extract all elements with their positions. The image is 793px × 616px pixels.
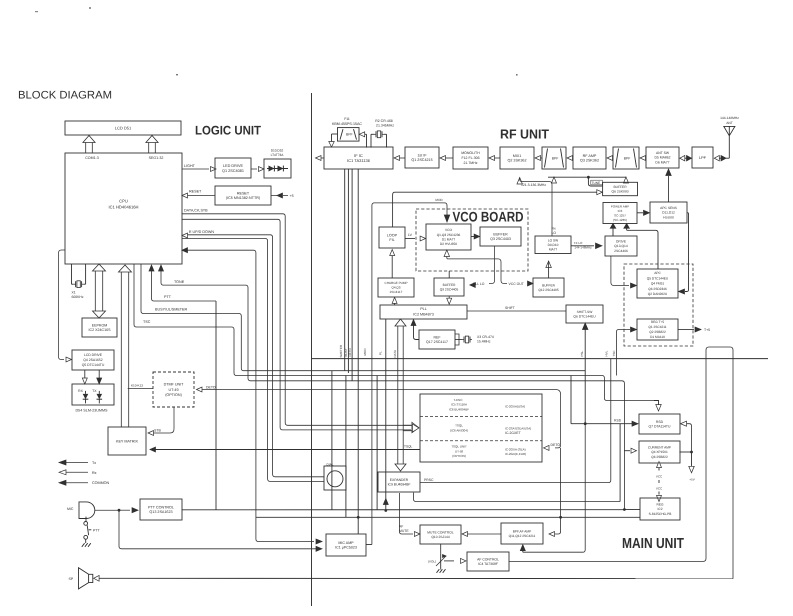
svg-text:PTT CONTROL: PTT CONTROL bbox=[148, 505, 174, 509]
svg-text:LPF: LPF bbox=[699, 156, 707, 160]
svg-text:X1: X1 bbox=[72, 290, 76, 294]
svg-text:MIC AMP: MIC AMP bbox=[338, 541, 354, 545]
svg-text:Q6 2SD2346: Q6 2SD2346 bbox=[648, 287, 667, 291]
svg-text:MUTE CONTROL: MUTE CONTROL bbox=[427, 530, 454, 534]
svg-text:TX LO: TX LO bbox=[574, 241, 583, 245]
svg-text:SP: SP bbox=[69, 577, 74, 581]
svg-text:MAIN UNIT: MAIN UNIT bbox=[622, 536, 684, 552]
svg-text:REG T+5: REG T+5 bbox=[651, 320, 665, 324]
svg-text:R2 CR-468: R2 CR-468 bbox=[375, 119, 393, 123]
svg-text:CURRENT AMP: CURRENT AMP bbox=[648, 445, 671, 449]
svg-text:IC2 X24C16S: IC2 X24C16S bbox=[89, 328, 112, 332]
svg-text:IC-2GXA (SEA): IC-2GXA (SEA) bbox=[505, 447, 526, 451]
svg-text:T-ENC: T-ENC bbox=[454, 398, 464, 402]
svg-text:Q1 2SC4081: Q1 2SC4081 bbox=[222, 169, 244, 173]
svg-text:D6 MA77: D6 MA77 bbox=[655, 160, 669, 164]
svg-text:IC-2SAT(SEA/USA): IC-2SAT(SEA/USA) bbox=[505, 426, 531, 430]
svg-text:VCC OUT: VCC OUT bbox=[509, 282, 524, 286]
svg-text:KEY MATRIX: KEY MATRIX bbox=[116, 439, 139, 443]
svg-text:Q6 2SK880: Q6 2SK880 bbox=[612, 189, 629, 193]
svg-text:MONOLITH: MONOLITH bbox=[461, 151, 480, 155]
svg-text:D2 HVU350: D2 HVU350 bbox=[440, 242, 457, 246]
svg-text:IC1 μPC5023: IC1 μPC5023 bbox=[335, 546, 357, 550]
svg-text:21.7MHz: 21.7MHz bbox=[463, 161, 477, 165]
svg-text:UT-49: UT-49 bbox=[168, 388, 178, 392]
svg-text:RESET: RESET bbox=[189, 190, 202, 194]
svg-text:S-8125CHG-PB: S-8125CHG-PB bbox=[649, 512, 672, 516]
svg-text:RESET: RESET bbox=[237, 191, 250, 195]
svg-text:(OPTION): (OPTION) bbox=[452, 454, 466, 458]
svg-text:CPU: CPU bbox=[119, 198, 128, 203]
svg-text:LCD DRIVE: LCD DRIVE bbox=[84, 353, 103, 357]
svg-text:SC-1257: SC-1257 bbox=[614, 213, 626, 217]
svg-text:+5: +5 bbox=[290, 194, 294, 198]
svg-text:CHARGE PUMP: CHARGE PUMP bbox=[384, 281, 407, 285]
svg-text:TONE: TONE bbox=[174, 280, 185, 284]
svg-text:Q5 DTC144EU: Q5 DTC144EU bbox=[647, 276, 669, 280]
svg-text:MOD: MOD bbox=[435, 198, 443, 202]
svg-text:Q9 2SC4405: Q9 2SC4405 bbox=[440, 287, 459, 291]
svg-text:21.345MHz: 21.345MHz bbox=[376, 124, 394, 128]
svg-text:Rx: Rx bbox=[552, 226, 556, 230]
svg-text:TUNE: TUNE bbox=[592, 181, 601, 185]
svg-text:LO: LO bbox=[552, 231, 557, 235]
svg-text:LV: LV bbox=[408, 233, 413, 237]
svg-text:LIGHT: LIGHT bbox=[184, 164, 196, 168]
svg-text:PLL: PLL bbox=[420, 307, 427, 311]
svg-text:APC: APC bbox=[654, 271, 661, 275]
svg-text:TSQL: TSQL bbox=[404, 445, 413, 449]
svg-text:MUTE: MUTE bbox=[399, 529, 409, 533]
svg-text:1st IF: 1st IF bbox=[417, 153, 427, 157]
svg-text:Q6 2SB822: Q6 2SB822 bbox=[651, 455, 668, 459]
svg-text:LOOP: LOOP bbox=[387, 233, 398, 237]
svg-text:D11,D12: D11,D12 bbox=[662, 211, 675, 215]
svg-text:(OPTION): (OPTION) bbox=[165, 393, 182, 397]
svg-text:D5 MA862: D5 MA862 bbox=[654, 156, 670, 160]
svg-text:Tx: Tx bbox=[92, 461, 96, 465]
svg-text:TSC: TSC bbox=[143, 320, 151, 324]
svg-text:RF AMP: RF AMP bbox=[583, 154, 597, 158]
svg-text:MOD: MOD bbox=[363, 348, 367, 356]
svg-text:T+5: T+5 bbox=[704, 328, 710, 332]
svg-text:X3 CR-474: X3 CR-474 bbox=[477, 335, 494, 339]
svg-text:SHIFT-SW: SHIFT-SW bbox=[577, 310, 594, 314]
svg-text:BLOCK DIAGRAM: BLOCK DIAGRAM bbox=[18, 90, 112, 102]
svg-text:IC2: IC2 bbox=[658, 507, 663, 511]
svg-text:Q11,Q12 2SC4211: Q11,Q12 2SC4211 bbox=[509, 534, 536, 538]
svg-text:Q13 2SA1623: Q13 2SA1623 bbox=[149, 510, 172, 514]
svg-text:Q13,Q14: Q13,Q14 bbox=[614, 244, 628, 248]
svg-text:LT4T73A: LT4T73A bbox=[271, 153, 285, 157]
svg-text:Q2 2SB822: Q2 2SB822 bbox=[649, 330, 666, 334]
svg-text:F11: F11 bbox=[344, 117, 350, 121]
svg-text:REF: REF bbox=[434, 335, 441, 339]
svg-text:144-148MHz: 144-148MHz bbox=[720, 116, 739, 120]
svg-text:DETO: DETO bbox=[551, 443, 561, 447]
svg-text:Q10 2SJ144: Q10 2SJ144 bbox=[431, 535, 449, 539]
svg-text:Q1 2SC4215: Q1 2SC4215 bbox=[411, 158, 432, 162]
svg-text:LCD D51: LCD D51 bbox=[115, 125, 132, 130]
svg-text:Q1 2SC4211: Q1 2SC4211 bbox=[648, 325, 666, 329]
svg-text:VCO: VCO bbox=[445, 228, 452, 232]
svg-text:D1 MA77: D1 MA77 bbox=[442, 237, 456, 241]
svg-text:Q2 3SK362: Q2 3SK362 bbox=[507, 159, 526, 163]
svg-text:STB: STB bbox=[154, 428, 161, 432]
svg-text:TSQL: TSQL bbox=[455, 424, 463, 428]
svg-text:PRSC: PRSC bbox=[424, 478, 434, 482]
svg-text:KBM-455PS-15AC: KBM-455PS-15AC bbox=[332, 122, 362, 126]
svg-text:Q4 XP1501: Q4 XP1501 bbox=[651, 450, 668, 454]
svg-text:RSD: RSD bbox=[614, 419, 622, 423]
svg-text:K10-K13: K10-K13 bbox=[131, 383, 143, 387]
svg-text:Q4,Q5: Q4,Q5 bbox=[391, 286, 400, 290]
svg-text:DETO: DETO bbox=[206, 385, 216, 389]
svg-text:BPF: BPF bbox=[624, 156, 631, 160]
svg-text:(IC5 MN1382-NTTR): (IC5 MN1382-NTTR) bbox=[226, 196, 260, 200]
svg-text:SMETER: SMETER bbox=[339, 344, 343, 357]
svg-text:IC-2GXET: IC-2GXET bbox=[505, 431, 521, 435]
svg-text:IC4 TA7368F: IC4 TA7368F bbox=[478, 562, 498, 566]
svg-text:HVL: HVL bbox=[604, 350, 608, 356]
svg-text:FIL: FIL bbox=[389, 238, 394, 242]
svg-text:IC3: IC3 bbox=[618, 209, 623, 213]
svg-text:Q5 DTC144TU: Q5 DTC144TU bbox=[82, 363, 105, 367]
svg-text:2SC4406: 2SC4406 bbox=[614, 249, 628, 253]
svg-text:Q1,Q3 2SC4236: Q1,Q3 2SC4236 bbox=[437, 233, 461, 237]
svg-text:Q12 2SC4405: Q12 2SC4405 bbox=[538, 288, 558, 292]
svg-text:D54 SLM-23UMMS: D54 SLM-23UMMS bbox=[76, 408, 109, 412]
svg-text:COMMON: COMMON bbox=[92, 481, 110, 485]
svg-text:DTMF UNIT: DTMF UNIT bbox=[164, 382, 185, 386]
svg-text:IC-2GX(E,EUR): IC-2GX(E,EUR) bbox=[505, 452, 526, 456]
svg-text:IC1 HD404616H: IC1 HD404616H bbox=[108, 205, 138, 210]
svg-text:HSU88: HSU88 bbox=[663, 215, 674, 219]
svg-text:RF UNIT: RF UNIT bbox=[500, 127, 549, 142]
svg-text:Q3 2SK362: Q3 2SK362 bbox=[580, 159, 599, 163]
svg-text:BUSY/UL/SMETER: BUSY/UL/SMETER bbox=[155, 308, 188, 312]
svg-text:(IC6 AK9304): (IC6 AK9304) bbox=[450, 428, 468, 432]
svg-text:IC-2GXA(USA): IC-2GXA(USA) bbox=[505, 404, 525, 408]
svg-text:ANT: ANT bbox=[726, 121, 733, 125]
svg-text:+5V: +5V bbox=[689, 478, 694, 482]
svg-text:15.4MHz: 15.4MHz bbox=[477, 340, 491, 344]
svg-text:EEPROM: EEPROM bbox=[92, 323, 108, 327]
svg-text:Rx: Rx bbox=[92, 471, 97, 475]
svg-text:RSD: RSD bbox=[656, 420, 664, 424]
svg-text:VCC: VCC bbox=[656, 475, 663, 479]
svg-text:LED DRIVE: LED DRIVE bbox=[223, 164, 244, 168]
svg-text:BPF: BPF bbox=[552, 156, 559, 160]
svg-text:LOGIC UNIT: LOGIC UNIT bbox=[195, 124, 261, 138]
svg-text:BUFFER: BUFFER bbox=[493, 232, 508, 236]
svg-text:PTT: PTT bbox=[164, 295, 172, 299]
svg-text:IC9 BU4094BF: IC9 BU4094BF bbox=[388, 482, 411, 486]
svg-text:ANT SW: ANT SW bbox=[656, 151, 670, 155]
svg-text:TSQL UNIT: TSQL UNIT bbox=[451, 445, 467, 449]
svg-text:PSL: PSL bbox=[580, 350, 584, 356]
svg-text:121.3-136.3MHz: 121.3-136.3MHz bbox=[521, 183, 546, 187]
svg-text:VCC: VCC bbox=[656, 487, 663, 491]
svg-text:DATA,CK,STB: DATA,CK,STB bbox=[184, 209, 208, 213]
svg-text:Q17 2SC4117: Q17 2SC4117 bbox=[426, 340, 448, 344]
svg-text:SHIFT: SHIFT bbox=[505, 306, 515, 310]
svg-text:IC5 S7116A: IC5 S7116A bbox=[451, 403, 467, 407]
svg-text:D10,D52: D10,D52 bbox=[271, 149, 284, 153]
svg-text:RX: RX bbox=[78, 389, 83, 393]
svg-text:PL: PL bbox=[379, 351, 383, 355]
svg-text:TSC: TSC bbox=[612, 350, 616, 357]
svg-text:Q7 DTA114TU: Q7 DTA114TU bbox=[649, 424, 671, 428]
svg-text:IC2 MB4873: IC2 MB4873 bbox=[413, 313, 434, 317]
svg-text:REG: REG bbox=[657, 502, 664, 506]
svg-text:BUFFER: BUFFER bbox=[613, 185, 627, 189]
svg-text:(VOL): (VOL) bbox=[428, 559, 436, 563]
svg-text:E UP/D DOWN: E UP/D DOWN bbox=[189, 230, 214, 234]
svg-text:VCO BOARD: VCO BOARD bbox=[453, 209, 524, 225]
svg-text:D9,D10: D9,D10 bbox=[548, 243, 559, 247]
svg-text:AF CONTROL: AF CONTROL bbox=[477, 557, 499, 561]
svg-text:Q4 2SA1652: Q4 2SA1652 bbox=[83, 358, 103, 362]
svg-text:LO SW: LO SW bbox=[548, 238, 558, 242]
svg-text:MA77: MA77 bbox=[549, 247, 558, 251]
svg-text:DRIVE: DRIVE bbox=[616, 239, 627, 243]
svg-text:DETO: DETO bbox=[348, 348, 352, 357]
svg-text:POWER AMP: POWER AMP bbox=[611, 204, 630, 208]
svg-text:BPF: BPF bbox=[346, 133, 353, 137]
svg-text:DATA: DATA bbox=[393, 350, 397, 358]
svg-text:TX: TX bbox=[92, 389, 97, 393]
svg-text:MIC: MIC bbox=[67, 507, 74, 511]
svg-text:EXPANDER: EXPANDER bbox=[390, 478, 409, 482]
svg-text:PTT: PTT bbox=[93, 529, 100, 533]
svg-text:Q4 FM51: Q4 FM51 bbox=[651, 282, 665, 286]
svg-text:Q3 2SC4403: Q3 2SC4403 bbox=[490, 237, 511, 241]
svg-text:(SC-1265): (SC-1265) bbox=[613, 218, 627, 222]
svg-text:APC SENS: APC SENS bbox=[660, 206, 677, 210]
svg-text:F12 FL-306: F12 FL-306 bbox=[461, 156, 479, 160]
svg-text:IC6 BU4094BF: IC6 BU4094BF bbox=[449, 407, 469, 411]
svg-text:Q6 DTC144EU: Q6 DTC144EU bbox=[573, 314, 596, 318]
svg-text:600KHz: 600KHz bbox=[72, 295, 84, 299]
svg-text:Q2 DAN202U: Q2 DAN202U bbox=[648, 292, 668, 296]
svg-text:D1 MA110: D1 MA110 bbox=[650, 335, 665, 339]
svg-text:UT-58: UT-58 bbox=[455, 449, 464, 453]
svg-text:COM1-3: COM1-3 bbox=[85, 156, 99, 160]
svg-text:SEG1-32: SEG1-32 bbox=[149, 156, 164, 160]
svg-text:MIX1: MIX1 bbox=[513, 154, 522, 158]
svg-text:2SC4117: 2SC4117 bbox=[390, 290, 403, 294]
svg-text:IC1 TA31136: IC1 TA31136 bbox=[347, 158, 371, 163]
